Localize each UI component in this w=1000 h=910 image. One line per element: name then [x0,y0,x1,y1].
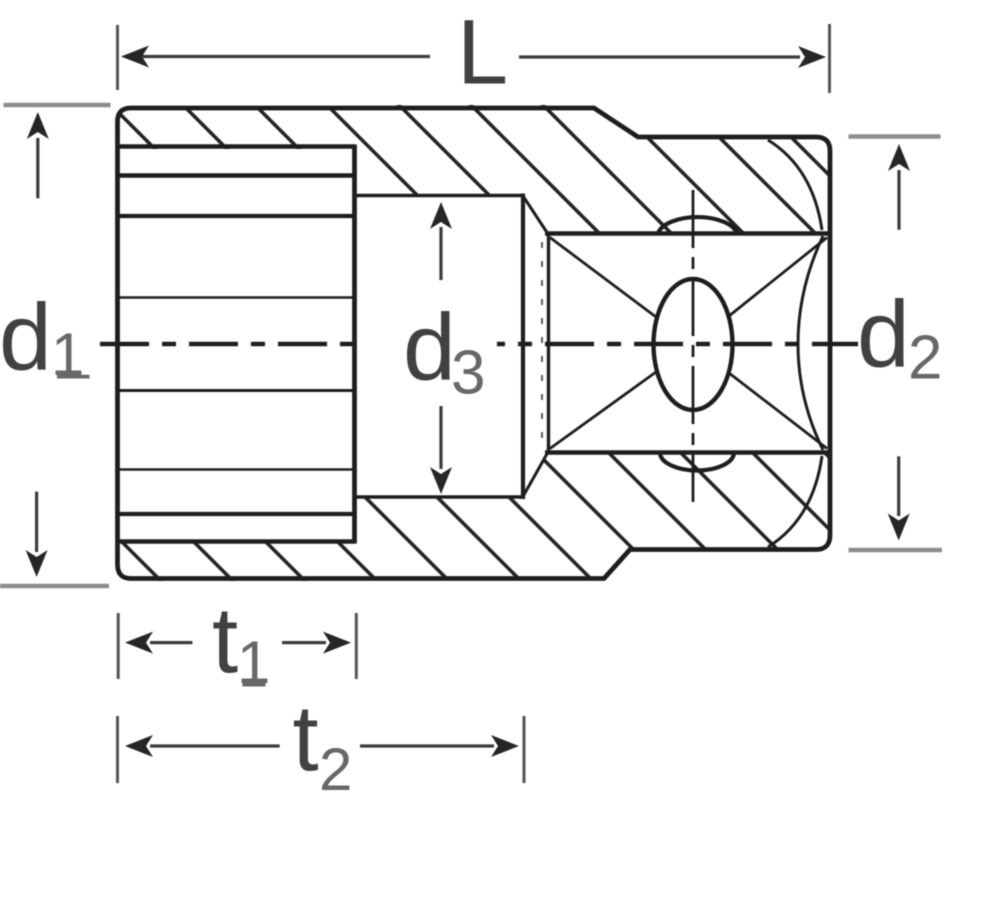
d1 bottom extension tick [0,584,109,589]
section divider [352,145,357,544]
t1 left tick [117,613,120,679]
vertical centerline [692,190,695,502]
through-hole wall arc [798,236,823,450]
L dimension left arrow [140,55,430,58]
d1 up arrow [36,138,39,198]
t2 right arrow [360,744,494,747]
hatching bottom-left band [0,80,1000,600]
d3 up arrow [439,227,442,280]
bore rectangle [355,194,524,198]
hatching bottom-right section [0,80,1000,600]
d2 down arrow [897,456,900,516]
socket head horizontal facet lines [118,144,356,148]
hidden corner line [541,242,543,447]
L dimension right tick [828,24,831,93]
t1 left arrow [150,641,192,644]
t2 right tick [523,716,526,783]
svg-text:d: d [0,285,52,391]
bottom detent arc [660,453,734,471]
svg-text:t: t [212,588,238,693]
t1 right arrow [282,641,326,644]
svg-text:t: t [293,686,319,791]
chamfer arc upper [768,140,822,230]
svg-text:L: L [457,2,508,104]
hatching top-right section [0,80,1000,600]
d2 bottom extension tick [849,548,943,553]
d2 top extension tick [849,134,941,139]
L dimension right arrow [519,55,800,58]
svg-text:3: 3 [451,339,485,408]
bore-to-square chamfer diagonals [523,196,548,234]
svg-text:d: d [403,295,456,401]
top detent arc [658,217,737,233]
d2 up arrow [897,170,900,230]
svg-text:d: d [857,282,910,388]
d1 down arrow [35,492,38,552]
d3 down arrow [439,406,442,469]
square window diagonals [550,238,656,318]
t1 right tick [355,613,358,679]
L dimension left tick [116,25,119,90]
chamfer arc lower [768,456,822,547]
svg-text:2: 2 [319,736,352,803]
centerline knockout behind d3 label [366,336,497,353]
hatching top-left band [0,80,1000,600]
drive pin hole ellipse [654,279,733,410]
square drive bottom edge [545,450,831,455]
d1 top extension tick [4,103,111,108]
square drive top edge [545,231,831,236]
t2 left tick [116,716,119,783]
square drive left edge [547,232,550,455]
t2 left arrow [150,744,280,747]
socket body outline [118,108,831,579]
horizontal centerline [100,342,858,346]
svg-text:2: 2 [908,324,942,393]
